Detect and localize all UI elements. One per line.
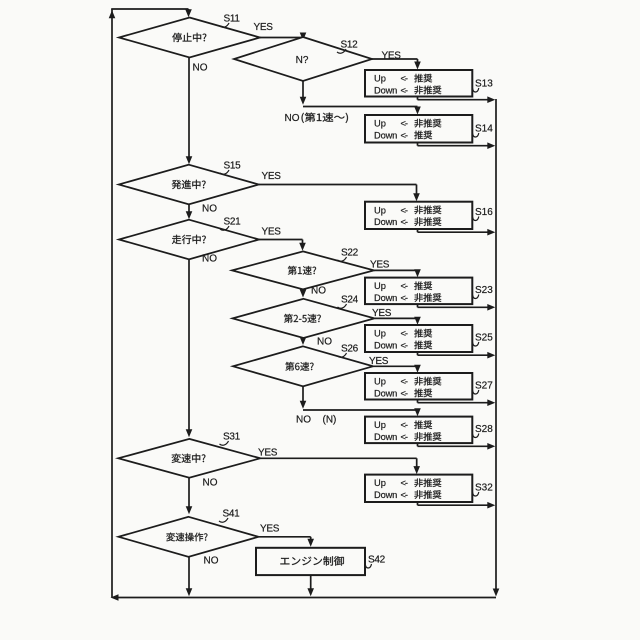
text S23 values: [374, 281, 441, 303]
label S32: [475, 483, 493, 494]
wire S21 YES right: [259, 239, 303, 241]
label NO S15: [202, 204, 217, 215]
leader S13: [473, 88, 479, 92]
wire S24 NO down: [302, 338, 304, 342]
svg-text:<-: <-: [401, 329, 408, 339]
leader S12: [337, 49, 346, 53]
arrowhead S23 into bus: [487, 304, 495, 311]
svg-text:Down: Down: [374, 130, 397, 140]
arrowhead into decision S15: [186, 156, 193, 164]
leader S31: [220, 441, 229, 445]
wire S15 NO down: [188, 204, 190, 217]
wire S14 out connector: [417, 143, 419, 146]
svg-text:<-: <-: [401, 281, 408, 291]
arrowhead into decision S11: [185, 9, 192, 17]
text S16 values: [374, 205, 441, 227]
arrowhead into box S42: [307, 539, 314, 547]
svg-text:S42: S42: [368, 555, 386, 566]
svg-text:S23: S23: [475, 285, 493, 296]
decision S22 first gear?: [232, 251, 374, 289]
svg-text:Up: Up: [374, 420, 386, 430]
text S13 values: [374, 74, 441, 96]
wire S26 YES drop: [417, 366, 419, 368]
svg-text:<-: <-: [401, 420, 408, 430]
process box S25: [365, 325, 472, 352]
arrowhead S42 into bottom wire: [307, 588, 314, 596]
svg-text:YES: YES: [262, 227, 282, 238]
svg-text:NO: NO: [203, 478, 218, 489]
wire S25 out to bus: [418, 354, 493, 356]
wire S31 YES drop: [416, 458, 418, 469]
wire S41 YES drop: [310, 537, 312, 542]
svg-text:YES: YES: [262, 171, 282, 182]
svg-text:S28: S28: [475, 424, 493, 435]
wire S13 out to bus: [418, 99, 493, 101]
svg-text:S12: S12: [341, 40, 359, 51]
wire S16 out connector: [417, 229, 419, 232]
wire S26 NO horizontal: [303, 409, 418, 411]
label YES S15: [262, 171, 282, 182]
svg-text:S15: S15: [224, 161, 242, 172]
leader S27: [473, 390, 479, 394]
wire S25 out connector: [417, 352, 419, 355]
wire S27 out to bus: [418, 402, 493, 404]
wire S22 NO down: [302, 289, 304, 294]
wire S21 NO down: [188, 259, 190, 435]
wire S15 YES drop: [416, 185, 418, 197]
arrowhead S26 NO corner: [300, 401, 307, 409]
text S22 dai-1-soku?: [288, 266, 316, 275]
label NO S31: [203, 478, 218, 489]
svg-text:NO: NO: [296, 415, 311, 426]
text S26 dai-6-soku?: [285, 362, 313, 371]
arrowhead into decision S12: [300, 33, 307, 41]
text S25 values: [374, 329, 432, 351]
svg-text:NO: NO: [311, 286, 326, 297]
svg-text:YES: YES: [254, 22, 274, 33]
svg-text:S14: S14: [475, 124, 493, 135]
text S27 values: [374, 377, 441, 399]
text S11 teishichuu?: [172, 33, 206, 42]
decision S11 stop?: [119, 18, 260, 58]
svg-text:NO: NO: [285, 113, 300, 124]
label NO S22: [311, 286, 326, 297]
label S22: [341, 248, 359, 259]
label NO S24: [317, 337, 332, 348]
svg-text:S31: S31: [223, 432, 241, 443]
process box S13: [365, 70, 472, 97]
leader S24: [338, 304, 347, 308]
svg-text:<-: <-: [401, 119, 408, 129]
wire S24 YES right: [375, 317, 418, 319]
svg-text:<-: <-: [401, 478, 408, 488]
leader S42: [365, 564, 371, 568]
leader S11: [220, 23, 229, 27]
svg-text:<-: <-: [401, 388, 408, 398]
text (first gear~): [302, 113, 348, 123]
label NO S11: [193, 63, 208, 74]
arrowhead into decision S24: [300, 290, 307, 298]
svg-text:YES: YES: [372, 308, 392, 319]
wire S11 YES to S12: [260, 37, 303, 39]
label S26: [341, 344, 359, 355]
arrowhead S16 into bus: [487, 229, 495, 236]
svg-text:Up: Up: [374, 329, 386, 339]
svg-text:<-: <-: [401, 74, 408, 84]
wire S32 out connector: [417, 502, 419, 505]
label S21: [224, 217, 242, 228]
label YES S41: [260, 524, 280, 535]
label NO S41: [204, 556, 219, 567]
decision S24 gears 2-5?: [233, 299, 375, 338]
leader S26: [338, 353, 347, 357]
svg-text:Down: Down: [374, 340, 397, 350]
label S27: [475, 381, 493, 392]
arrowhead into box S14: [414, 107, 421, 115]
svg-text:Up: Up: [374, 478, 386, 488]
svg-text:YES: YES: [258, 448, 278, 459]
decision S12 N?: [234, 37, 372, 81]
svg-text:NO: NO: [202, 204, 217, 215]
arrowhead into box S16: [413, 193, 420, 201]
svg-text:N?: N?: [296, 55, 309, 66]
svg-text:<-: <-: [401, 217, 408, 227]
wire S16 out to bus: [418, 231, 493, 233]
wire S11 NO down: [188, 58, 190, 163]
text S14 values: [374, 119, 441, 141]
wire S22 YES drop: [417, 270, 419, 272]
wire S27 out connector: [417, 400, 419, 403]
svg-text:Up: Up: [374, 377, 386, 387]
arrowhead S14 into bus: [487, 142, 495, 149]
svg-text:Up: Up: [374, 205, 386, 215]
arrowhead bus into bottom wire: [493, 589, 500, 597]
label S15: [224, 161, 242, 172]
wire S26 NO drop to S28: [417, 410, 419, 411]
wire S23 out to bus: [418, 306, 493, 308]
wire S14 out to bus: [418, 145, 493, 147]
svg-text:<-: <-: [401, 205, 408, 215]
leader S15: [220, 170, 229, 174]
text S42 engine control: [280, 556, 343, 565]
label S31: [223, 432, 241, 443]
text S41 hensokusousa?: [166, 533, 207, 542]
arrowhead S28 into bus: [487, 443, 495, 450]
svg-text:S32: S32: [475, 483, 493, 494]
label YES S22: [370, 260, 390, 271]
leader S41: [219, 518, 228, 522]
arrowhead into box S27: [414, 365, 421, 373]
arrowhead S41 NO into bottom wire: [186, 588, 193, 596]
wire S12 NO down: [302, 81, 304, 99]
text S24 dai-2-5-soku?: [284, 314, 321, 323]
label S28: [475, 424, 493, 435]
svg-text:S13: S13: [475, 79, 493, 90]
svg-text:NO: NO: [317, 337, 332, 348]
wire S31 YES right: [260, 457, 416, 459]
process box S14: [365, 115, 472, 143]
svg-text:S11: S11: [224, 14, 241, 25]
svg-text:<-: <-: [401, 432, 408, 442]
arrowhead into box S32: [413, 466, 420, 474]
wire S28 out connector: [417, 443, 419, 446]
wire S22 YES right: [374, 269, 418, 271]
svg-text:YES: YES: [369, 356, 389, 367]
leader S21: [220, 226, 229, 230]
arrowhead bottom into loop-back: [111, 594, 119, 601]
process box S28: [365, 417, 472, 444]
arrowhead S12 NO corner: [300, 97, 307, 105]
label YES S12: [382, 51, 402, 62]
label YES S31: [258, 448, 278, 459]
arrowhead S13 into bus: [487, 96, 495, 103]
wire S21 YES drop: [302, 240, 304, 246]
decision S21 running?: [119, 220, 259, 260]
label S42: [368, 555, 386, 566]
svg-text:YES: YES: [370, 260, 390, 271]
arrowhead into box S23: [414, 269, 421, 277]
arrowhead S27 into bus: [487, 399, 495, 406]
text S31 hensokuchuu?: [172, 454, 206, 463]
wire S12 NO drop to S14: [417, 107, 419, 110]
svg-text:S41: S41: [223, 509, 241, 520]
arrowhead up at top of loop-back: [109, 10, 116, 18]
svg-text:S27: S27: [475, 381, 493, 392]
svg-text:S22: S22: [341, 248, 359, 259]
svg-text:Down: Down: [374, 388, 397, 398]
label S12: [341, 40, 359, 51]
label NO(dai-1-soku~): [285, 113, 300, 124]
wire S13 out connector: [417, 97, 419, 100]
leader S28: [473, 434, 479, 438]
wire S24 YES drop: [417, 318, 419, 320]
label S41: [223, 509, 241, 520]
svg-text:<-: <-: [401, 340, 408, 350]
leader S23: [473, 295, 479, 299]
svg-text:Up: Up: [374, 119, 386, 129]
process box S42 engine control: [256, 548, 365, 575]
svg-text:YES: YES: [260, 524, 280, 535]
decision S41 shift operation?: [119, 517, 259, 557]
arrowhead into box S28: [414, 408, 421, 416]
arrowhead into decision S31: [186, 429, 193, 437]
process box S23: [365, 278, 472, 305]
decision S26 sixth gear?: [233, 346, 373, 386]
svg-text:(N): (N): [323, 415, 337, 426]
text S32 values: [374, 478, 441, 500]
wire S31 NO down: [188, 478, 190, 512]
svg-text:Down: Down: [374, 85, 397, 95]
label YES S26: [369, 356, 389, 367]
wire S15 YES right: [259, 184, 417, 186]
label NO (N): [296, 415, 336, 426]
wire S41 YES right: [259, 536, 311, 538]
svg-text:Down: Down: [374, 293, 397, 303]
arrowhead S32 into bus: [487, 502, 495, 509]
wire S41 NO down: [188, 557, 190, 592]
svg-text:S16: S16: [475, 207, 493, 218]
decision S15 starting?: [119, 165, 259, 205]
arrowhead S25 into bus: [487, 352, 495, 359]
text S21 soukouchuu?: [172, 235, 206, 244]
text S12 N?: [296, 55, 309, 66]
leader S25: [473, 342, 479, 346]
svg-text:NO: NO: [202, 254, 217, 265]
label S11: [224, 14, 241, 25]
decision S31 shifting?: [118, 439, 260, 478]
svg-text:<-: <-: [401, 85, 408, 95]
arrowhead into decision S41: [186, 506, 193, 514]
process box S16: [365, 202, 472, 229]
label S25: [475, 333, 493, 344]
leader S14: [473, 133, 479, 137]
label YES S24: [372, 308, 392, 319]
svg-text:<-: <-: [401, 490, 408, 500]
arrowhead into decision S22: [299, 243, 306, 251]
label YES S21: [262, 227, 282, 238]
wire bottom horizontal: [113, 597, 496, 599]
label NO S21: [202, 254, 217, 265]
wire S26 NO down: [302, 386, 304, 403]
svg-text:Up: Up: [374, 281, 386, 291]
label S13: [475, 79, 493, 90]
wire into S11 top: [188, 9, 190, 12]
arrowhead into decision S26: [300, 337, 307, 345]
svg-text:S26: S26: [341, 344, 359, 355]
label S24: [341, 295, 359, 306]
text S15 hasshinchuu?: [172, 180, 206, 189]
label S23: [475, 285, 493, 296]
process box S27: [365, 373, 472, 400]
wire S12 YES right: [372, 58, 418, 60]
wire S12 YES drop: [417, 59, 419, 63]
process box S32: [365, 475, 472, 502]
label S16: [475, 207, 493, 218]
label S14: [475, 124, 493, 135]
svg-text:Down: Down: [374, 217, 397, 227]
svg-text:Down: Down: [374, 490, 397, 500]
wire S32 out to bus: [418, 504, 493, 506]
arrowhead into box S13: [414, 62, 421, 70]
leader S22: [338, 257, 347, 261]
wire right bus vertical: [495, 99, 497, 592]
leader S16: [473, 217, 479, 221]
arrowhead into decision S21: [186, 211, 193, 219]
svg-text:NO: NO: [204, 556, 219, 567]
svg-text:Up: Up: [374, 74, 386, 84]
svg-text:Down: Down: [374, 432, 397, 442]
wire S12 NO horizontal: [303, 106, 418, 108]
svg-text:<-: <-: [401, 130, 408, 140]
text S28 values: [374, 420, 441, 442]
svg-text:NO: NO: [193, 63, 208, 74]
svg-text:S25: S25: [475, 333, 493, 344]
wire S28 out to bus: [418, 445, 493, 447]
wire S23 out connector: [417, 304, 419, 307]
label YES S11: [254, 22, 274, 33]
wire S26 YES right: [373, 365, 418, 367]
arrowhead into box S25: [414, 317, 421, 325]
wire loop-back left vertical: [111, 9, 113, 598]
svg-text:<-: <-: [401, 293, 408, 303]
svg-text:S21: S21: [224, 217, 242, 228]
wire loop-back top horizontal: [111, 8, 188, 10]
wire S42 out down: [310, 575, 312, 592]
svg-text:S24: S24: [341, 295, 359, 306]
svg-text:<-: <-: [401, 377, 408, 387]
leader S32: [473, 492, 479, 496]
